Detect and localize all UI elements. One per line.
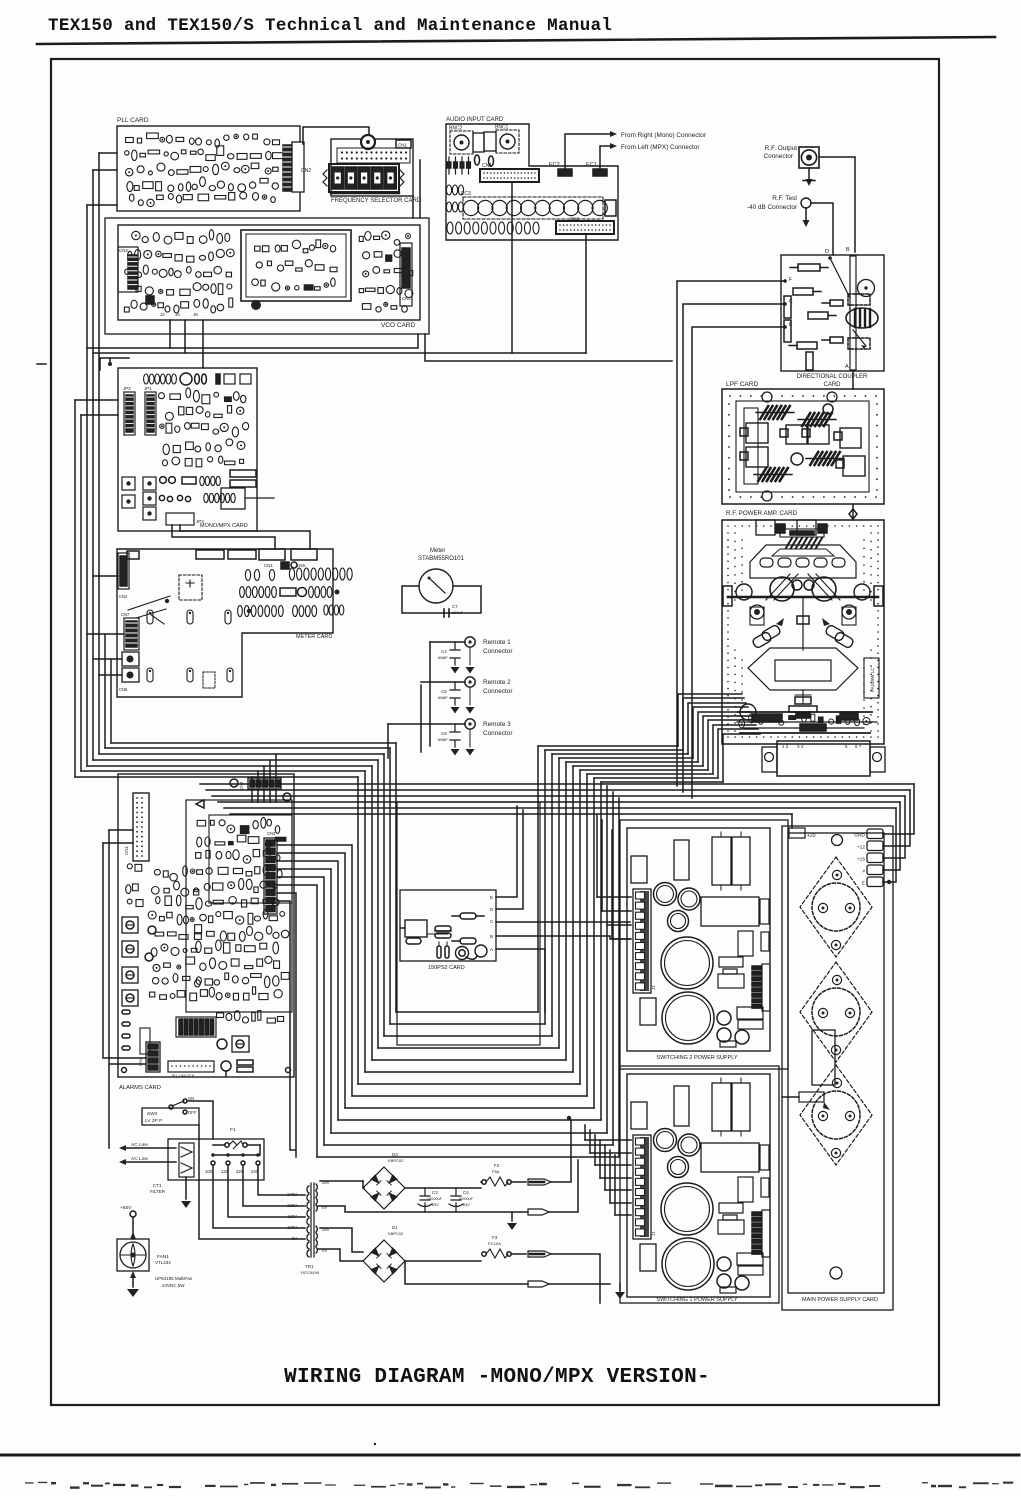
- faston 0V: [528, 1160, 578, 1215]
- wire ps2 A down: [496, 949, 545, 1012]
- frequency selector card label: [331, 198, 422, 204]
- from right mono connector label: [621, 132, 707, 139]
- bottom page rule: [0, 1454, 1019, 1457]
- wire +15 terminal: [883, 796, 905, 858]
- frequency selector card: [323, 135, 413, 196]
- bridge rectifier D2: [363, 1152, 405, 1209]
- audio input card label: [446, 117, 504, 123]
- svg-text:CN1: CN1: [264, 563, 273, 568]
- svg-text:100uF: 100uF: [452, 610, 464, 615]
- faston -28V: [528, 1251, 600, 1303]
- wire PLL pin1 to left bus: [99, 152, 117, 154]
- svg-text:Remote 1: Remote 1: [483, 639, 511, 646]
- svg-text:TEX150 and TEX150/S Technical: TEX150 and TEX150/S Technical and Mainte…: [48, 16, 612, 36]
- svg-text:0V: 0V: [292, 1236, 297, 1241]
- svg-text:KBPC02: KBPC02: [388, 1231, 404, 1236]
- wire EC2 to right mono arrow: [565, 131, 617, 169]
- remote 1 connector: [430, 637, 475, 674]
- svg-text:-40 dB Connector: -40 dB Connector: [747, 204, 798, 211]
- svg-text:Connector: Connector: [764, 153, 794, 160]
- svg-text:CN2: CN2: [119, 248, 128, 253]
- wire D1 out: [405, 1260, 481, 1262]
- main card resistor block: [812, 1030, 835, 1085]
- fan FAN1: [117, 1232, 149, 1278]
- wire E terminal: [883, 808, 896, 884]
- scan noise row: [25, 1482, 1013, 1489]
- svg-text:100V: 100V: [287, 1225, 297, 1230]
- svg-text:R.F. POWER AMP. CARD: R.F. POWER AMP. CARD: [726, 510, 798, 517]
- alarms card label: [119, 1085, 161, 1091]
- bridge rectifier D1: [363, 1225, 405, 1282]
- ground bottom: [615, 1284, 625, 1299]
- wire meter CN6 to mono JP3: [180, 525, 310, 549]
- svg-text:From Left (MPX) Connector: From Left (MPX) Connector: [621, 144, 700, 151]
- RF test connector: [801, 198, 811, 208]
- svg-text:LPF CARD: LPF CARD: [726, 381, 758, 388]
- main card transistor Q3: [800, 1065, 872, 1165]
- wire bundle A to main card terminals: [196, 784, 914, 814]
- line filter CT1 box: [168, 1139, 264, 1180]
- svg-text:MONO/MPX CARD: MONO/MPX CARD: [200, 523, 248, 529]
- wire # terminal: [883, 802, 900, 870]
- line filter CT1: [150, 1143, 194, 1194]
- from left mpx connector label: [621, 144, 700, 151]
- svg-text:SW2: SW2: [147, 1111, 158, 1117]
- svg-text:C7: C7: [452, 604, 458, 609]
- main card transistor Q2: [800, 962, 872, 1062]
- svg-text:ALARMS CARD: ALARMS CARD: [119, 1085, 161, 1091]
- svg-text:R.F. Test: R.F. Test: [772, 195, 797, 202]
- wire coupler E to bus: [692, 327, 785, 798]
- svg-text:J1: J1: [651, 1231, 656, 1236]
- svg-text:120V: 120V: [287, 1214, 297, 1219]
- svg-text:Remote 2: Remote 2: [483, 679, 511, 686]
- wires VCO jumpers down: [170, 320, 203, 368]
- RF output connector label: [764, 145, 798, 160]
- svg-text:+20: +20: [807, 833, 816, 839]
- svg-text:VTL434: VTL434: [155, 1260, 171, 1265]
- svg-text:CARD: CARD: [823, 382, 841, 388]
- mono/mpx card label: [200, 523, 248, 529]
- wire frequency selector to VCO: [413, 160, 420, 218]
- svg-text:150PS2 CARD: 150PS2 CARD: [428, 965, 465, 971]
- wire audio CN1 down: [511, 182, 513, 353]
- capacitor C7: [436, 604, 464, 617]
- wire meter CN7 to left bus: [87, 634, 124, 675]
- svg-text:J5: J5: [193, 312, 198, 317]
- wire 28V-2 to D1: [318, 1228, 363, 1261]
- voltage selector bus: [211, 1145, 260, 1157]
- svg-text:PA150W LC: PA150W LC: [870, 667, 875, 692]
- main power supply card label: [802, 1297, 878, 1303]
- svg-text:+12: +12: [857, 845, 865, 851]
- wire RF output to coupler B: [819, 157, 855, 252]
- wire ps2 E up: [496, 806, 517, 897]
- RF output connector: [799, 147, 819, 168]
- switching 2 enclosure: [620, 820, 788, 1069]
- fan ground: [127, 1278, 139, 1297]
- transformer TR1: [300, 1183, 320, 1275]
- svg-text:Y8TC8199: Y8TC8199: [300, 1270, 320, 1275]
- svg-text:B: B: [490, 934, 493, 939]
- RF power amp mounting tab: [762, 741, 885, 776]
- svg-text:B: B: [846, 247, 850, 253]
- svg-text:D: D: [825, 249, 829, 255]
- capacitor C4: [449, 1188, 474, 1212]
- switching 1 power supply board: [627, 1074, 770, 1297]
- svg-text:CN2: CN2: [239, 781, 244, 790]
- wiring diagram title: [284, 1366, 710, 1389]
- svg-text:F2: F2: [494, 1163, 500, 1168]
- main card transistor Q1: [800, 857, 872, 957]
- wire PLL to frequency selector: [303, 127, 369, 144]
- svg-text:CN2: CN2: [301, 168, 311, 174]
- wire remote2 drop: [420, 685, 422, 752]
- switching 1 label: [656, 1297, 738, 1303]
- wire RF test to coupler D: [811, 203, 833, 255]
- remote 2 connector: [421, 677, 475, 714]
- RF power amp card label: [726, 510, 798, 517]
- svg-text:D1: D1: [392, 1225, 398, 1230]
- meter card: [117, 549, 352, 697]
- svg-text:6N8F: 6N8F: [438, 695, 448, 700]
- fan label: [155, 1254, 171, 1265]
- wire meter loop: [402, 586, 481, 613]
- svg-text:Connector: Connector: [483, 688, 513, 695]
- svg-text:CN2: CN2: [570, 216, 579, 221]
- diagram border frame: [51, 59, 939, 1405]
- wire mono jp2 to left bus: [75, 400, 118, 415]
- svg-text:EC2: EC2: [549, 162, 560, 168]
- wires to switching 2 J1: [597, 815, 631, 939]
- wire LPF to RF power amp: [849, 504, 857, 520]
- svg-text:CN3: CN3: [267, 831, 276, 836]
- svg-text:240V: 240V: [287, 1192, 297, 1197]
- svg-text:R.F. Output: R.F. Output: [765, 145, 798, 152]
- LPF card label: [726, 381, 758, 388]
- switching 2 power supply board: [627, 828, 770, 1051]
- PLL card label: [117, 117, 149, 124]
- svg-text:F1: F1: [230, 1127, 236, 1133]
- mono/mpx card: [118, 368, 274, 531]
- wire bundle H1 horizontal: [75, 743, 396, 777]
- wire 0V line: [318, 1206, 528, 1212]
- left margin tick: [37, 363, 46, 365]
- svg-text:CN1: CN1: [402, 296, 411, 301]
- wire alarms left verticals down: [103, 830, 146, 1148]
- remote 3 label: [483, 721, 513, 737]
- remote 1 label: [483, 639, 513, 655]
- wire +12 terminal: [883, 790, 910, 846]
- svg-text:C6: C6: [441, 731, 447, 736]
- svg-text:MAIN POWER SUPPLY CARD: MAIN POWER SUPPLY CARD: [802, 1297, 878, 1303]
- svg-text:220V: 220V: [287, 1203, 297, 1208]
- svg-text:KBPC02: KBPC02: [388, 1158, 404, 1163]
- svg-text:Remote 3: Remote 3: [483, 721, 511, 728]
- PLL card: [117, 126, 311, 211]
- wire ps2 D up: [496, 810, 523, 909]
- wire meter CN1 to mono JP3: [172, 525, 275, 549]
- svg-text:JP2: JP2: [123, 386, 131, 391]
- wire EC1 to left mpx arrow: [600, 143, 617, 169]
- main card left stub: [782, 1092, 830, 1110]
- ground after C4: [507, 1212, 517, 1230]
- wire PLL pin2 to left bus: [93, 169, 117, 171]
- svg-text:Meter: Meter: [430, 548, 445, 554]
- svg-text:BNC2: BNC2: [449, 126, 463, 132]
- fuse F2: [481, 1163, 526, 1186]
- wires alarms CN3 staircase: [277, 845, 352, 1157]
- secondary labels: [322, 1180, 330, 1253]
- svg-text:C3: C3: [432, 1190, 438, 1195]
- remote 3 connector: [388, 719, 475, 756]
- svg-text:J1: J1: [651, 985, 656, 990]
- wire gnd terminal: [883, 784, 914, 834]
- svg-text:100: 100: [205, 1169, 213, 1174]
- wire SW2 to selector: [187, 1101, 213, 1180]
- wire mid horizontal L3: [425, 334, 672, 361]
- svg-text:C5: C5: [441, 689, 447, 694]
- svg-text:AC Line: AC Line: [131, 1142, 148, 1148]
- svg-text:F3.15A: F3.15A: [488, 1241, 501, 1246]
- svg-text:FILTER: FILTER: [150, 1189, 166, 1194]
- svg-text:DIRECTIONAL COUPLER: DIRECTIONAL COUPLER: [797, 374, 868, 380]
- wires alarms CN1 left: [103, 830, 133, 843]
- svg-text:METER CARD: METER CARD: [296, 634, 332, 640]
- 150PS2 card label: [428, 965, 465, 971]
- svg-text:+15: +15: [857, 857, 865, 863]
- svg-text:63V: 63V: [432, 1203, 439, 1207]
- svg-text:AC Line: AC Line: [131, 1156, 148, 1162]
- fuse F3: [482, 1235, 526, 1258]
- meter M1: [419, 569, 453, 603]
- switching 2 label: [656, 1055, 738, 1061]
- wire coupler A to LPF: [852, 371, 854, 389]
- primary tap labels: [287, 1192, 297, 1241]
- wire mid horizontal L2: [93, 352, 586, 354]
- capacitor C3: [418, 1188, 443, 1212]
- svg-text:LV 2P P: LV 2P P: [145, 1118, 162, 1124]
- svg-text:C4: C4: [441, 649, 447, 654]
- stray dot: [374, 1443, 376, 1445]
- page header text: [48, 16, 612, 36]
- svg-text:6N8F: 6N8F: [438, 655, 448, 660]
- alarms card: [118, 774, 294, 1078]
- svg-text:Connector: Connector: [483, 730, 513, 737]
- svg-text:D2: D2: [392, 1152, 398, 1157]
- svg-text:UP64185 MultiFan: UP64185 MultiFan: [155, 1276, 193, 1281]
- svg-text:24VDC 5W: 24VDC 5W: [162, 1283, 185, 1288]
- svg-text:CN5: CN5: [119, 687, 128, 692]
- wires RF amp pin staircase: [678, 694, 760, 782]
- svg-text:F: F: [789, 277, 792, 283]
- RF output ground stub: [803, 168, 815, 186]
- wire +20 terminal up: [791, 814, 793, 828]
- fuse F1: [213, 1127, 260, 1149]
- directional coupler card label: [797, 374, 868, 388]
- faston +28V: [528, 1120, 571, 1185]
- wire remote1 drop: [429, 642, 431, 746]
- svg-text:EC1: EC1: [586, 162, 597, 168]
- fan note: [155, 1276, 193, 1288]
- svg-text:CT1: CT1: [153, 1183, 162, 1188]
- svg-text:PLL UNLOCK: PLL UNLOCK: [172, 1074, 195, 1078]
- svg-text:1 2: 1 2: [782, 744, 789, 749]
- switch SW2: [142, 1096, 199, 1125]
- CT1 ground: [181, 1177, 191, 1208]
- wire bundle V2 vertical: [358, 743, 396, 1084]
- svg-text:CN7: CN7: [121, 612, 130, 617]
- LPF card: [722, 389, 884, 504]
- AC line input arrows: [119, 1142, 176, 1165]
- switching 1 enclosure: [620, 1066, 779, 1303]
- svg-text:10000uF: 10000uF: [427, 1197, 443, 1201]
- svg-text:J4: J4: [175, 312, 180, 317]
- wire bundle H3 horizontal: [538, 746, 723, 782]
- svg-text:BNC1: BNC1: [495, 125, 509, 131]
- voltage selector contacts: [205, 1161, 260, 1174]
- wire meter CN2 left stub: [93, 575, 118, 577]
- wire coupler C to bus: [683, 304, 785, 792]
- RF amp pin numbers: [782, 744, 862, 749]
- 150PS2 card: [400, 890, 496, 961]
- svg-text:CN2: CN2: [119, 594, 128, 599]
- wire bundle V3 vertical: [538, 746, 619, 1157]
- svg-text:CN1: CN1: [398, 143, 407, 148]
- wire PLL pin3 to left bus: [87, 204, 117, 206]
- 150PS2 harness box: [397, 802, 540, 1045]
- svg-text:SWITCHING 1 POWER SUPPLY: SWITCHING 1 POWER SUPPLY: [656, 1297, 738, 1303]
- wire ps2 B to sw2: [496, 936, 630, 939]
- svg-text:J2: J2: [160, 312, 165, 317]
- svg-text:VCO CARD: VCO CARD: [381, 322, 416, 329]
- wire bundle H2 horizontal: [317, 1012, 619, 1157]
- VCO card: [105, 218, 429, 334]
- svg-text:10000uF: 10000uF: [458, 1197, 474, 1201]
- remote 2 label: [483, 679, 513, 695]
- svg-text:OFF: OFF: [188, 1110, 197, 1115]
- RF power amp card: [722, 520, 884, 744]
- svg-text:A: A: [845, 364, 849, 370]
- svg-text:GND: GND: [854, 833, 865, 839]
- svg-text:AUDIO INPUT CARD: AUDIO INPUT CARD: [446, 117, 504, 123]
- svg-text:TR1: TR1: [305, 1264, 314, 1269]
- svg-text:CN1: CN1: [124, 846, 129, 855]
- svg-text:E: E: [862, 881, 865, 887]
- wire D2 out: [405, 1187, 481, 1189]
- main power supply card body: [782, 826, 893, 1310]
- svg-text:A: A: [490, 947, 493, 952]
- +65V point: [120, 1205, 136, 1239]
- svg-text:STABM55RO101: STABM55RO101: [418, 556, 465, 562]
- wire remote3 drop: [387, 724, 389, 758]
- svg-text:F3: F3: [492, 1235, 498, 1240]
- svg-text:6 7: 6 7: [855, 744, 862, 749]
- RF test connector label: [747, 195, 798, 211]
- faston 0V-2: [405, 1261, 610, 1287]
- wires alarms CN2 up to bus: [252, 754, 276, 802]
- wire coupler F to bus: [677, 281, 785, 786]
- VCO card label: [381, 322, 416, 329]
- svg-text:WIRING DIAGRAM -MONO/MPX VERSI: WIRING DIAGRAM -MONO/MPX VERSION-: [284, 1366, 710, 1389]
- wire junction dot: [567, 1116, 571, 1120]
- svg-text:Connector: Connector: [483, 648, 513, 655]
- svg-text:63V: 63V: [463, 1203, 470, 1207]
- wires to switching 1 J1: [585, 1125, 631, 1215]
- wire mono top left bus: [100, 358, 129, 370]
- svg-text:+65V: +65V: [120, 1205, 132, 1211]
- svg-text:JP1: JP1: [144, 386, 152, 391]
- svg-text:SWITCHING 2 POWER SUPPLY: SWITCHING 2 POWER SUPPLY: [656, 1055, 738, 1061]
- wire audio CN2 down: [585, 234, 587, 353]
- left vertical wire bus: [75, 153, 111, 777]
- svg-text:F5A: F5A: [492, 1169, 500, 1174]
- directional coupler card: [781, 247, 884, 371]
- header rule: [37, 37, 995, 44]
- audio input card: [446, 124, 618, 240]
- wires selector to transformer: [199, 1165, 305, 1239]
- wire 28V to D2: [320, 1181, 364, 1188]
- svg-text:E: E: [490, 895, 493, 900]
- svg-text:From Right (Mono) Connector: From Right (Mono) Connector: [621, 132, 707, 139]
- svg-text:3 4: 3 4: [797, 744, 804, 749]
- RF test ground stub: [803, 208, 810, 227]
- svg-text:C4: C4: [463, 1190, 469, 1195]
- wire ps2 C to sw2: [496, 921, 630, 923]
- svg-text:6N8F: 6N8F: [438, 737, 448, 742]
- svg-text:PLL CARD: PLL CARD: [117, 117, 149, 124]
- svg-text:FREQUENCY SELECTOR CARD: FREQUENCY SELECTOR CARD: [331, 198, 422, 204]
- wire mid horizontal L1: [87, 334, 418, 348]
- svg-text:#: #: [862, 869, 865, 875]
- meter label: [418, 548, 465, 562]
